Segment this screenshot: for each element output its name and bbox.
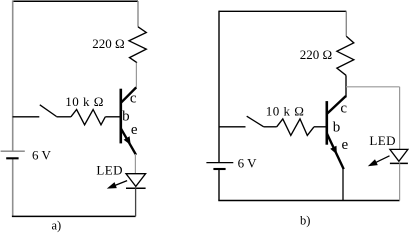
transistor Q2 emitter line bbox=[327, 134, 344, 170]
switch S2 blade (open) bbox=[247, 116, 264, 127]
battery B1 6V: short thick plate bbox=[6, 157, 18, 159]
resistor R3 220ohm zigzag (b) bbox=[337, 36, 354, 75]
transistor Q2 collector line bbox=[327, 96, 346, 114]
wire: 220 top stem b bbox=[345, 11, 347, 36]
wire: base wire b bbox=[314, 126, 327, 128]
svg-text:220 Ω: 220 Ω bbox=[92, 36, 124, 51]
svg-text:10 k Ω: 10 k Ω bbox=[65, 94, 104, 109]
LED D2 triangle (b) bbox=[390, 149, 408, 161]
wire: 220 top stem a bbox=[137, 1, 139, 27]
resistor R2 10kohm zigzag (a) bbox=[71, 110, 105, 125]
LED D2 cathode bar (b) bbox=[390, 162, 408, 164]
svg-text:LED: LED bbox=[369, 133, 395, 148]
switch S1 blade (open) bbox=[40, 105, 57, 117]
wire: junction to LED branch (b) bbox=[346, 86, 400, 88]
wire: left rail a lower bbox=[12, 158, 14, 216]
battery B2 6V: short thick plate bbox=[213, 168, 225, 170]
wire: left rail b upper bbox=[218, 11, 220, 163]
svg-text:b: b bbox=[122, 109, 130, 125]
svg-text:b): b) bbox=[300, 213, 310, 227]
resistor R1 220ohm zigzag (a) bbox=[129, 27, 146, 63]
resistor R4 10kohm zigzag (b) bbox=[277, 119, 314, 135]
transistor Q1 emitter line bbox=[121, 128, 136, 155]
wire: emitter to LED stem a bbox=[134, 154, 136, 174]
svg-text:e: e bbox=[342, 137, 349, 153]
svg-text:a): a) bbox=[52, 219, 62, 233]
transistor Q1 emitter arrowhead bbox=[124, 136, 131, 145]
wire: emitter to bottom rail b bbox=[342, 169, 344, 201]
wire: switch feed a bbox=[13, 116, 40, 118]
svg-text:LED: LED bbox=[96, 163, 122, 178]
transistor Q1 bar bbox=[120, 89, 123, 144]
battery B1 6V: long plate bbox=[1, 150, 25, 152]
svg-text:6 V: 6 V bbox=[238, 156, 258, 171]
svg-text:10 k Ω: 10 k Ω bbox=[266, 104, 305, 119]
svg-text:c: c bbox=[340, 101, 347, 117]
wire: 220 bottom stem to collector b bbox=[345, 75, 347, 97]
transistor Q1 collector line bbox=[121, 87, 137, 103]
svg-text:6 V: 6 V bbox=[32, 148, 52, 163]
wire: LED to bottom rail b bbox=[399, 163, 401, 200]
wire: LED to bottom rail a bbox=[135, 188, 137, 216]
wire: top rail b bbox=[219, 10, 346, 12]
wire: bottom rail a bbox=[12, 215, 136, 217]
svg-text:220 Ω: 220 Ω bbox=[300, 47, 332, 62]
svg-text:b: b bbox=[333, 119, 341, 135]
LED D2 light arrow (b) bbox=[374, 156, 390, 164]
wire: left rail a upper bbox=[12, 0, 14, 151]
wire: right edge down to LED (b) bbox=[399, 87, 401, 150]
wire: 220 bottom stem to collector a bbox=[135, 63, 137, 88]
svg-text:c: c bbox=[130, 90, 137, 106]
wire: switch to resistor a bbox=[57, 116, 71, 118]
svg-text:e: e bbox=[131, 122, 138, 138]
wire: switch feed b bbox=[219, 126, 246, 128]
wire: top rail a bbox=[13, 0, 138, 2]
wire: switch to resistor b bbox=[264, 126, 277, 128]
LED D1 cathode bar (a) bbox=[126, 187, 146, 189]
wire: left rail b lower bbox=[218, 169, 220, 201]
battery B2 6V: long plate bbox=[206, 162, 233, 164]
wire: base wire a bbox=[105, 116, 121, 118]
LED D1 triangle (a) bbox=[126, 174, 146, 187]
LED D1 light arrow (a) bbox=[112, 181, 127, 187]
wire: bottom rail b bbox=[218, 200, 399, 202]
transistor Q2 emitter arrowhead bbox=[330, 146, 337, 155]
transistor Q2 bar bbox=[325, 101, 328, 145]
